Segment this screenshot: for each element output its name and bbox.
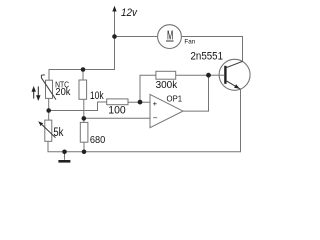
svg-text:300k: 300k bbox=[156, 80, 178, 91]
svg-text:2n5551: 2n5551 bbox=[191, 51, 224, 63]
svg-text:Fan: Fan bbox=[184, 39, 195, 46]
svg-text:5k: 5k bbox=[53, 125, 64, 139]
svg-text:680: 680 bbox=[90, 135, 106, 146]
svg-text:12v: 12v bbox=[121, 7, 138, 19]
svg-text:10k: 10k bbox=[90, 90, 104, 102]
svg-text:100: 100 bbox=[108, 105, 125, 117]
svg-text:OP1: OP1 bbox=[167, 94, 183, 103]
svg-text:−: − bbox=[153, 114, 158, 123]
svg-text:20k: 20k bbox=[55, 87, 70, 98]
svg-text:+: + bbox=[153, 99, 158, 108]
svg-text:M: M bbox=[167, 27, 173, 42]
